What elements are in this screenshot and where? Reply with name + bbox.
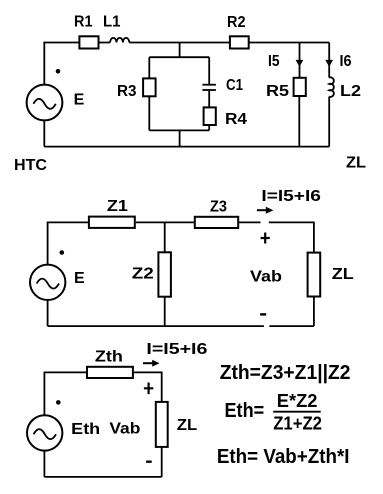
wire left vertical upper xyxy=(43,372,45,416)
impedance Z1 xyxy=(89,217,135,228)
svg-text:ZL: ZL xyxy=(332,266,354,283)
wire bottom horizontal xyxy=(44,146,329,148)
wire bottom right segment xyxy=(269,325,314,327)
current arrow I xyxy=(257,207,274,214)
svg-text:E: E xyxy=(74,92,85,109)
svg-text:I6: I6 xyxy=(340,53,352,70)
svg-text:Zth=Z3+Z1||Z2: Zth=Z3+Z1||Z2 xyxy=(220,362,351,384)
wire bottom left segment xyxy=(48,325,264,327)
resistor R2 xyxy=(230,36,249,48)
wire right vertical upper xyxy=(313,222,315,253)
svg-text:E*Z2: E*Z2 xyxy=(277,391,318,411)
wire left vertical lower xyxy=(47,300,49,326)
AC source E xyxy=(30,265,65,300)
svg-text:Z1+Z2: Z1+Z2 xyxy=(273,414,322,434)
wire right vertical upper xyxy=(161,372,163,402)
wire top-left horizontal xyxy=(48,221,89,223)
wire stub parallel block to bottom wire xyxy=(179,130,181,146)
svg-text:I=I5+I6: I=I5+I6 xyxy=(261,188,321,205)
svg-text:Z3: Z3 xyxy=(210,198,227,215)
svg-text:R5: R5 xyxy=(266,83,289,100)
wire L1 to R2 xyxy=(129,42,230,44)
wire parallel block bottom xyxy=(149,129,209,131)
terminal minus xyxy=(146,461,152,463)
svg-text:I=I5+I6: I=I5+I6 xyxy=(146,341,207,358)
AC source Eth xyxy=(27,415,62,450)
wire junction stub to parallel block xyxy=(179,43,181,58)
wire R3 branch upper xyxy=(148,57,150,78)
resistor R3 xyxy=(143,78,156,96)
wire between R1 and L1 xyxy=(99,42,111,44)
svg-text:Vab: Vab xyxy=(250,269,282,286)
wire junction stub to Z2 xyxy=(164,222,166,252)
svg-text:L1: L1 xyxy=(103,14,121,31)
current arrow I5 xyxy=(296,60,304,67)
svg-text:R1: R1 xyxy=(74,14,93,31)
terminal minus xyxy=(260,313,266,315)
wire left vertical upper xyxy=(47,222,49,265)
load ZL xyxy=(156,402,168,447)
svg-text:R2: R2 xyxy=(227,14,246,31)
impedance Z3 xyxy=(195,217,238,228)
equation Eth= E*Z2/(Z1+Z2) xyxy=(225,391,323,434)
wire left vertical lower xyxy=(43,120,45,146)
load ZL xyxy=(308,253,321,297)
wire L2 branch upper (right edge) xyxy=(328,43,330,78)
wire Z2 to bottom wire xyxy=(164,297,166,326)
svg-text:Eth: Eth xyxy=(71,421,100,438)
svg-text:R4: R4 xyxy=(225,111,247,128)
current arrow I6 xyxy=(325,60,333,67)
wire right vertical lower xyxy=(161,447,163,477)
inductor L1 xyxy=(110,38,129,43)
wire R3 branch lower xyxy=(148,96,150,130)
svg-text:Vab: Vab xyxy=(109,420,140,437)
wire L2 branch lower xyxy=(328,97,330,147)
svg-text:HTC: HTC xyxy=(14,157,47,174)
wire top-left horizontal xyxy=(44,371,87,373)
impedance Z2 xyxy=(158,252,171,296)
impedance Zth xyxy=(87,367,133,378)
svg-text:I5: I5 xyxy=(268,53,280,70)
wire parallel block top xyxy=(149,56,209,58)
svg-text:E: E xyxy=(74,270,85,287)
AC source E xyxy=(27,85,63,121)
polarity dot xyxy=(56,400,61,405)
svg-text:L2: L2 xyxy=(340,83,361,100)
wire C1 branch upper xyxy=(208,57,210,84)
inductor L2 xyxy=(329,77,334,96)
terminal plus xyxy=(144,383,153,395)
wire R5 branch xyxy=(299,43,301,78)
svg-text:Eth= Vab+Zth*I: Eth= Vab+Zth*I xyxy=(217,446,350,468)
wire right vertical lower xyxy=(313,297,315,327)
svg-text:ZL: ZL xyxy=(346,155,366,172)
resistor R5 xyxy=(294,78,306,96)
terminal plus xyxy=(261,233,270,244)
capacitor C1 xyxy=(202,85,216,90)
svg-text:R3: R3 xyxy=(117,83,137,100)
current arrow I xyxy=(143,360,160,367)
svg-text:ZL: ZL xyxy=(177,417,198,434)
svg-text:C1: C1 xyxy=(226,77,243,94)
wire top-left horizontal xyxy=(44,42,79,44)
wire R5 branch lower xyxy=(298,96,300,147)
polarity dot xyxy=(60,250,65,255)
wire Zth to top-right corner xyxy=(133,371,162,373)
wire bottom horizontal xyxy=(44,476,161,478)
svg-text:Eth=: Eth= xyxy=(225,400,265,422)
wire C1 to R4 xyxy=(208,91,210,108)
wire terminal a to top-right corner xyxy=(269,221,314,223)
wire Z1 to Z3 xyxy=(136,221,195,223)
svg-text:Z1: Z1 xyxy=(107,198,128,215)
svg-text:Zth: Zth xyxy=(95,349,123,366)
wire R4 branch lower xyxy=(208,125,210,130)
wire Z3 to terminal a xyxy=(238,221,260,223)
resistor R4 xyxy=(204,107,216,125)
svg-text:Z2: Z2 xyxy=(132,266,154,283)
wire left vertical lower xyxy=(43,451,45,477)
wire left vertical upper xyxy=(43,42,45,85)
polarity dot xyxy=(56,69,61,74)
resistor R1 xyxy=(79,36,98,48)
wire R2 to top-right corner xyxy=(249,42,330,44)
